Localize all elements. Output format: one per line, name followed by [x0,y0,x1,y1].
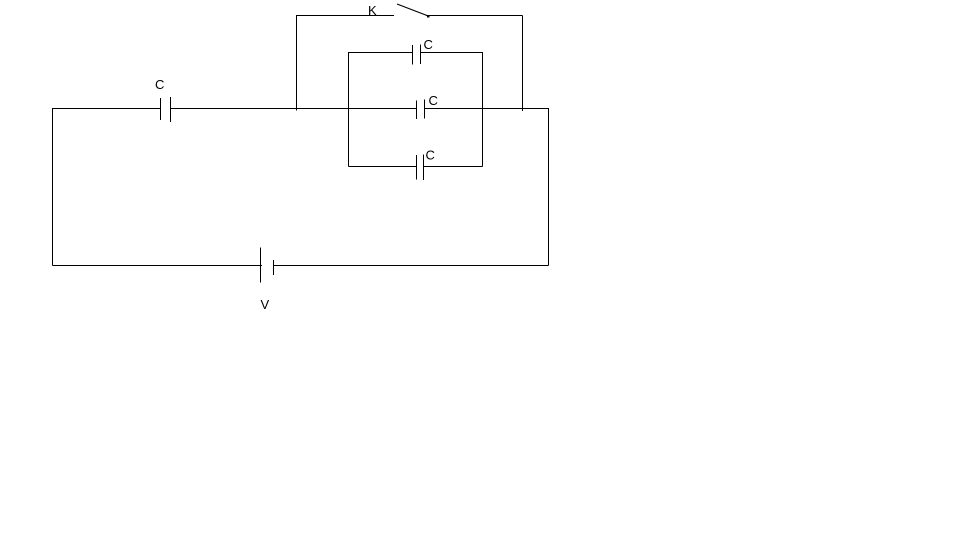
svg-text:C: C [426,148,435,163]
capacitor C4 right plate [423,155,425,181]
wire parallel box top right segment [421,52,483,54]
wire switch branch right vertical [522,16,524,112]
wire outer loop left vertical [52,108,54,266]
capacitor C2 left plate [412,45,414,65]
wire parallel box right vertical [482,52,484,167]
capacitor C1 left plate [160,98,162,120]
capacitor C3 left plate [416,101,418,120]
capacitor C1 right plate [170,97,172,122]
svg-text:C: C [155,77,164,92]
wire switch branch top left horizontal [296,15,394,17]
svg-text:V: V [261,297,270,312]
wire main horizontal left segment [52,108,161,110]
wire parallel box bottom left segment [349,166,417,168]
svg-text:K: K [368,3,377,18]
capacitor C4 left plate [416,155,418,180]
capacitor C3 right plate [424,100,426,119]
wire switch branch left vertical [296,15,298,111]
wire switch branch top right horizontal [426,15,523,17]
wire main horizontal right segment [425,108,549,110]
switch K contact dot [427,16,430,18]
wire outer loop bottom left segment [53,265,263,267]
svg-text:C: C [429,93,438,108]
wire main horizontal middle segment [171,108,417,110]
battery V long plate [260,248,262,283]
wire parallel box left vertical [348,52,350,167]
wire parallel box bottom right segment [424,166,483,168]
switch K blade (diagonal) [397,4,427,16]
svg-text:C: C [424,37,433,52]
wire outer loop right vertical [548,108,550,266]
capacitor C2 right plate [420,45,422,65]
wire outer loop bottom right segment [274,265,549,267]
battery V short plate [273,260,275,275]
wire parallel box top left segment [349,52,413,54]
